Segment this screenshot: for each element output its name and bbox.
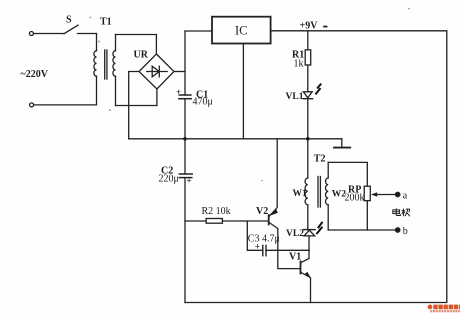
svg-text:VL1: VL1 [286, 92, 304, 102]
svg-text:1k: 1k [294, 59, 304, 70]
svg-text:+: + [187, 176, 192, 186]
svg-text:W1: W1 [293, 189, 308, 199]
svg-text:UR: UR [134, 50, 149, 61]
svg-text:V2: V2 [256, 206, 268, 217]
svg-text:+: + [255, 242, 260, 252]
svg-text:T1: T1 [100, 17, 112, 28]
svg-text:R2 10k: R2 10k [202, 206, 231, 217]
svg-text:+: + [176, 87, 181, 97]
svg-text:C3 4.7μ: C3 4.7μ [248, 234, 280, 245]
svg-text:T2: T2 [314, 154, 326, 165]
svg-text:200k: 200k [345, 193, 365, 204]
svg-text:IC: IC [235, 24, 248, 38]
svg-text:S: S [66, 15, 72, 26]
svg-text:VL2: VL2 [286, 229, 304, 239]
svg-text:+9V: +9V [300, 21, 319, 32]
svg-text:V1: V1 [289, 252, 301, 263]
svg-text:220μ: 220μ [159, 174, 179, 185]
svg-text:~220V: ~220V [21, 69, 49, 80]
svg-text:470μ: 470μ [193, 97, 213, 108]
svg-text:a: a [403, 190, 408, 201]
svg-text:b: b [403, 226, 408, 237]
